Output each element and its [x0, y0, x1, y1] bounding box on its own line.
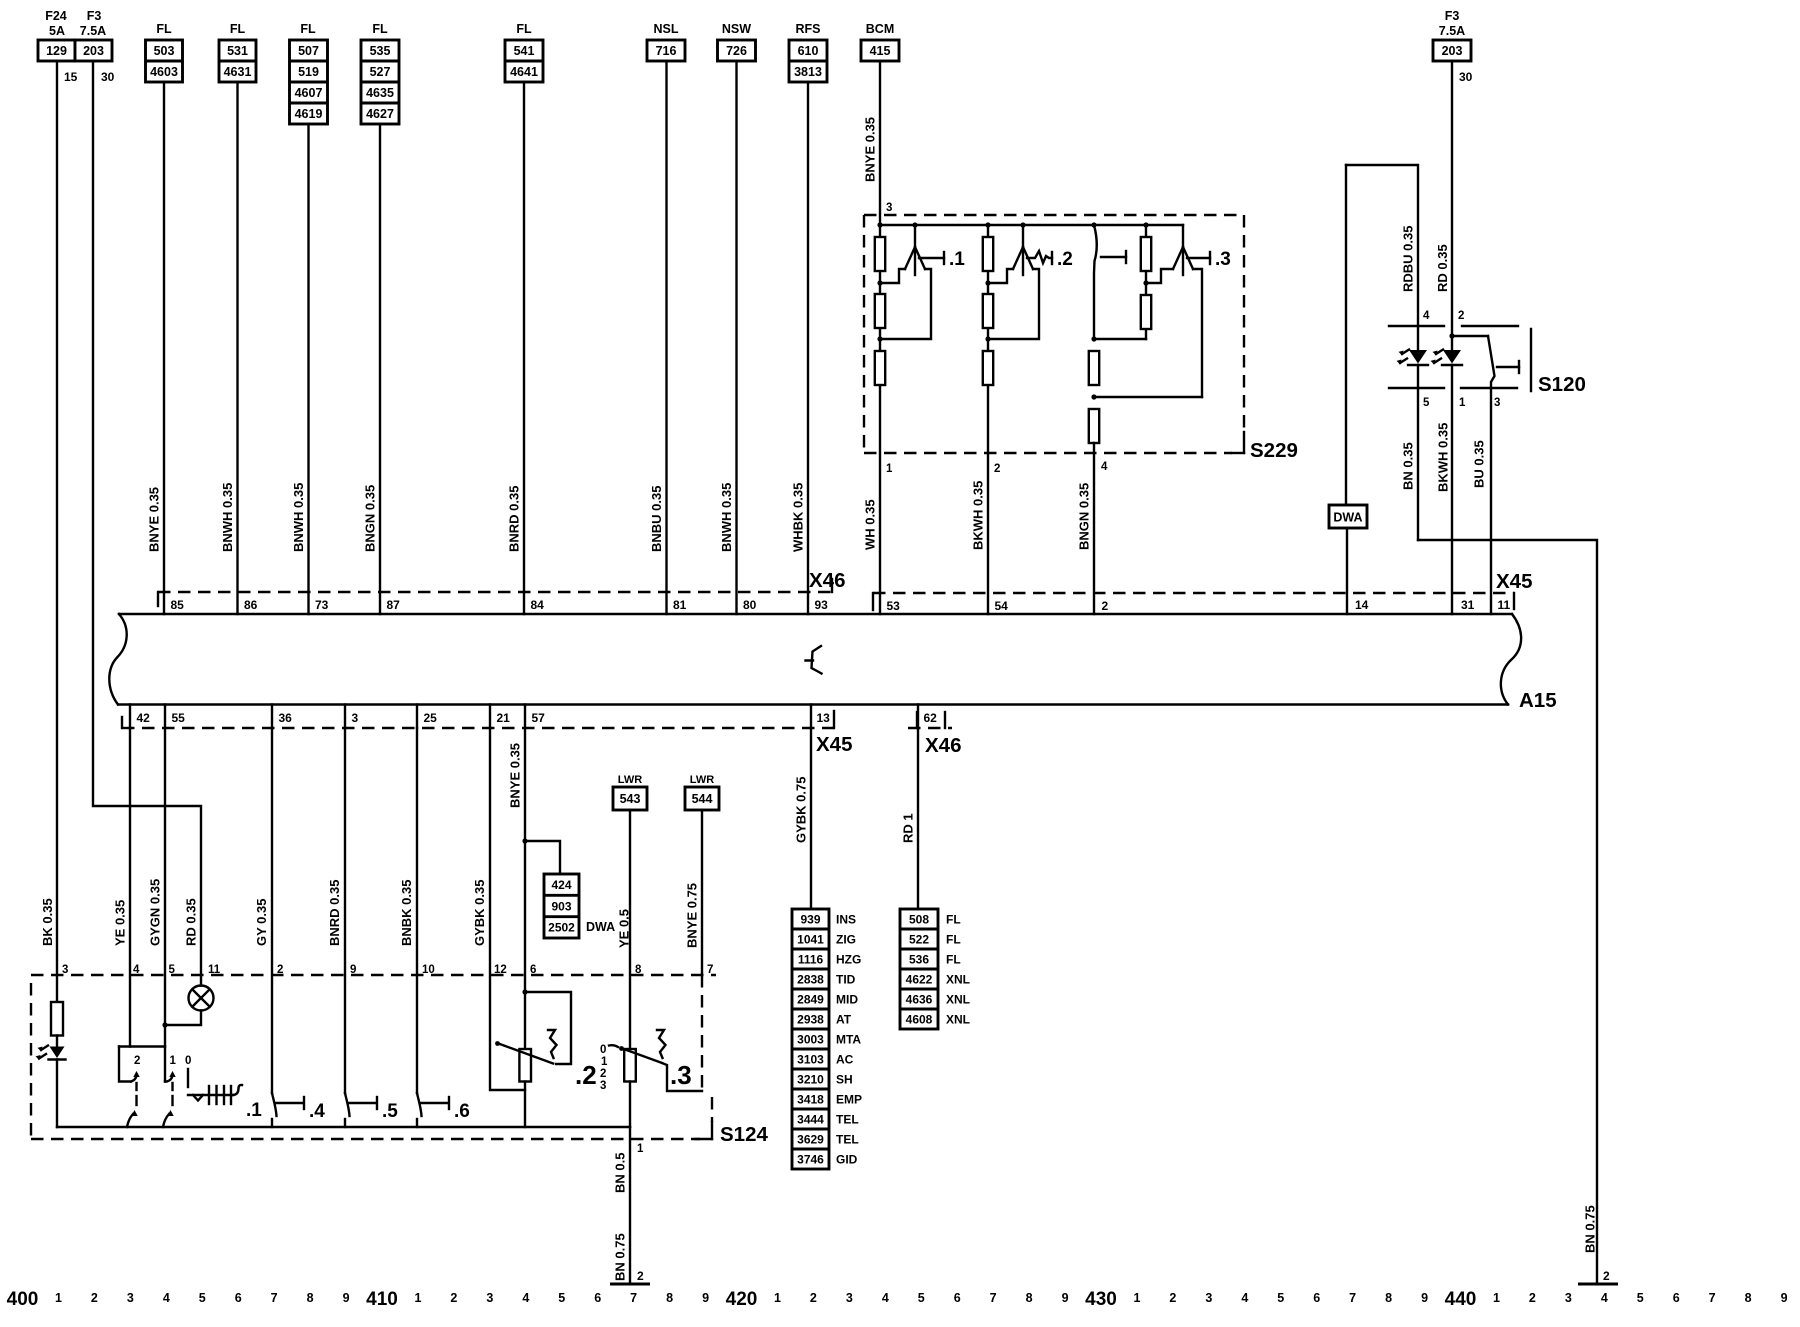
svg-text:GID: GID: [836, 1152, 858, 1166]
terminal FL 535/527/4635/4627: [361, 22, 399, 124]
svg-text:3: 3: [352, 711, 359, 725]
svg-text:XNL: XNL: [946, 992, 970, 1006]
svg-text:9: 9: [1781, 1291, 1788, 1305]
svg-text:726: 726: [726, 44, 747, 58]
svg-text:.2: .2: [575, 1060, 597, 1090]
svg-text:13: 13: [817, 711, 831, 725]
svg-text:3103: 3103: [797, 1052, 824, 1066]
svg-text:21: 21: [497, 711, 511, 725]
svg-text:3: 3: [127, 1291, 134, 1305]
svg-text:A15: A15: [1519, 689, 1557, 712]
S124 internal common line: [57, 1126, 630, 1128]
svg-text:9: 9: [343, 1291, 350, 1305]
svg-text:8: 8: [666, 1291, 673, 1305]
wire WHBK 0.35 (610 to X46:93): [791, 82, 829, 614]
svg-text:7: 7: [1349, 1291, 1356, 1305]
svg-text:3003: 3003: [797, 1032, 824, 1046]
svg-text:716: 716: [656, 44, 677, 58]
contact symbol S229.3: [1146, 225, 1231, 397]
svg-text:4: 4: [1601, 1291, 1608, 1305]
svg-text:3: 3: [846, 1291, 853, 1305]
svg-text:.6: .6: [454, 1101, 470, 1122]
svg-text:87: 87: [387, 598, 401, 612]
svg-text:EMP: EMP: [836, 1092, 862, 1106]
svg-text:YE 0.5: YE 0.5: [617, 909, 632, 948]
svg-text:541: 541: [514, 44, 535, 58]
svg-text:.3: .3: [1215, 249, 1231, 270]
svg-text:203: 203: [1442, 44, 1463, 58]
svg-text:1116: 1116: [798, 952, 824, 966]
wire RD 1 (X46:62 to connector table 508): [901, 728, 919, 909]
svg-text:2502: 2502: [548, 921, 575, 935]
svg-text:1041: 1041: [797, 932, 824, 946]
svg-text:522: 522: [909, 932, 929, 946]
svg-text:7: 7: [990, 1291, 997, 1305]
svg-text:YE 0.35: YE 0.35: [113, 900, 128, 946]
svg-text:53: 53: [887, 599, 901, 613]
svg-text:2: 2: [994, 463, 1000, 475]
svg-text:4627: 4627: [366, 107, 394, 121]
svg-text:14: 14: [1355, 598, 1369, 612]
svg-text:9: 9: [702, 1291, 709, 1305]
terminal FL 507/519/4607/4619: [290, 22, 328, 124]
svg-text:FL: FL: [946, 932, 961, 946]
svg-text:1: 1: [886, 463, 893, 475]
fuse F24 5A (terminal 129): [38, 9, 78, 84]
svg-text:7.5A: 7.5A: [80, 24, 106, 38]
switch S124.6: [417, 1093, 470, 1127]
svg-text:MID: MID: [836, 992, 858, 1006]
bus pin stubs below A15: [130, 705, 918, 729]
S229 dashed enclosure: [864, 215, 1298, 462]
svg-text:1: 1: [1133, 1291, 1140, 1305]
svg-text:2: 2: [1102, 599, 1109, 613]
svg-text:536: 536: [909, 952, 929, 966]
svg-text:X46: X46: [809, 569, 845, 592]
S229 internal supply bus: [877, 222, 1183, 227]
connector X46 dashed row (pins 85-93): [158, 569, 845, 606]
switch branch S229.3 left column: [1089, 225, 1202, 614]
LED in S124 with arrows: [36, 1036, 66, 1128]
svg-text:RFS: RFS: [796, 22, 821, 36]
svg-text:BNBK 0.35: BNBK 0.35: [399, 880, 414, 946]
wire RDBU 0.35 (S120 pin 4 branch): [1346, 165, 1430, 350]
svg-text:8: 8: [1385, 1291, 1392, 1305]
svg-text:X45: X45: [816, 733, 852, 756]
svg-text:535: 535: [370, 44, 391, 58]
svg-text:INS: INS: [836, 912, 856, 926]
svg-text:84: 84: [531, 598, 545, 612]
svg-text:NSL: NSL: [654, 22, 679, 36]
svg-text:86: 86: [244, 598, 258, 612]
svg-text:400: 400: [7, 1289, 39, 1310]
svg-text:BNRD 0.35: BNRD 0.35: [327, 880, 342, 946]
LWR potentiometer S124.2: [495, 989, 597, 1127]
wire BKWH 0.35 (S120 pin 1 to X45:31): [1436, 423, 1475, 612]
svg-text:BNYE 0.75: BNYE 0.75: [685, 883, 700, 948]
svg-text:2: 2: [91, 1291, 98, 1305]
connector X45 dashed row bottom (pins 42-13): [122, 711, 852, 756]
svg-text:610: 610: [798, 44, 819, 58]
svg-text:4: 4: [1423, 310, 1430, 322]
lamp symbol in S124 (instrument illumination): [162, 986, 213, 1028]
svg-text:415: 415: [870, 44, 891, 58]
terminal FL 531/4631: [219, 22, 256, 82]
wire BN 0.35 (S120 pin 5 to ground line): [1401, 442, 1416, 490]
svg-text:F3: F3: [87, 9, 102, 23]
svg-text:4608: 4608: [906, 1012, 933, 1026]
svg-text:3746: 3746: [797, 1152, 824, 1166]
svg-text:4622: 4622: [906, 972, 933, 986]
terminal BCM 415: [861, 22, 899, 61]
svg-text:.1: .1: [246, 1100, 262, 1121]
svg-text:5: 5: [199, 1291, 206, 1305]
wire GYBK 0.75 (X45:13 to connector table 939): [794, 728, 812, 909]
wire BK 0.35 from fuse 129 to S124 pin 3: [40, 61, 68, 1002]
wire GYGN 0.35 (X45:55 to S124 pin 5): [148, 728, 176, 1047]
svg-text:8: 8: [307, 1291, 314, 1305]
svg-text:DWA: DWA: [1333, 511, 1362, 525]
svg-text:RD 0.35: RD 0.35: [1435, 244, 1450, 292]
wire BNRD 0.35 (X45:3 to S124 pin 9): [327, 728, 356, 1093]
svg-text:RD 1: RD 1: [901, 813, 916, 843]
connector X46 bottom bracket (pin 62): [908, 712, 961, 757]
svg-text:3: 3: [1205, 1291, 1212, 1305]
svg-text:RDBU 0.35: RDBU 0.35: [1401, 226, 1416, 292]
svg-text:.2: .2: [1057, 249, 1073, 270]
wire BU 0.35 (S120 pin 3 to X45:11): [1472, 440, 1511, 612]
svg-text:1: 1: [1459, 397, 1466, 409]
svg-text:6: 6: [594, 1291, 601, 1305]
switch S124.5: [345, 1093, 398, 1127]
svg-text:15: 15: [64, 70, 78, 84]
svg-text:1: 1: [637, 1143, 644, 1155]
svg-text:3: 3: [600, 1080, 606, 1092]
svg-text:129: 129: [46, 44, 67, 58]
svg-text:508: 508: [909, 912, 929, 926]
svg-text:3: 3: [886, 202, 892, 214]
svg-text:0: 0: [185, 1055, 191, 1067]
svg-text:GYBK 0.35: GYBK 0.35: [472, 880, 487, 946]
svg-text:519: 519: [298, 65, 319, 79]
svg-text:2: 2: [1529, 1291, 1536, 1305]
svg-text:BCM: BCM: [866, 22, 894, 36]
svg-text:6: 6: [954, 1291, 961, 1305]
heater element S229.2 resistors: [983, 225, 993, 614]
svg-text:2: 2: [810, 1291, 817, 1305]
terminal RFS 610/3813: [789, 22, 827, 82]
svg-text:4: 4: [1241, 1291, 1248, 1305]
svg-text:LWR: LWR: [690, 774, 714, 786]
svg-text:WH 0.35: WH 0.35: [863, 499, 878, 550]
coordinate ruler 400-449: [7, 1289, 1788, 1310]
svg-text:2: 2: [637, 1269, 644, 1283]
svg-text:BNYE 0.35: BNYE 0.35: [147, 487, 162, 552]
svg-text:FL: FL: [230, 22, 246, 36]
svg-text:SH: SH: [836, 1072, 853, 1086]
svg-text:BNYE 0.35: BNYE 0.35: [863, 117, 878, 182]
wire BNYE 0.75 (544 to S124 pin 7): [685, 810, 714, 976]
svg-text:527: 527: [370, 65, 391, 79]
svg-text:939: 939: [800, 912, 820, 926]
svg-text:MTA: MTA: [836, 1032, 861, 1046]
svg-text:5A: 5A: [49, 24, 65, 38]
svg-text:9: 9: [1421, 1291, 1428, 1305]
svg-text:FL: FL: [516, 22, 532, 36]
svg-text:1: 1: [414, 1291, 421, 1305]
svg-text:FL: FL: [300, 22, 316, 36]
svg-text:55: 55: [172, 711, 186, 725]
svg-text:FL: FL: [156, 22, 172, 36]
svg-text:3: 3: [1494, 397, 1500, 409]
svg-text:3: 3: [1565, 1291, 1572, 1305]
svg-text:BNWH 0.35: BNWH 0.35: [291, 483, 306, 552]
svg-text:8: 8: [1026, 1291, 1033, 1305]
svg-text:NSW: NSW: [722, 22, 751, 36]
svg-text:25: 25: [424, 711, 438, 725]
svg-text:7: 7: [271, 1291, 278, 1305]
svg-text:5: 5: [1637, 1291, 1644, 1305]
svg-text:4: 4: [163, 1291, 170, 1305]
terminal FL 541/4641: [505, 22, 543, 82]
svg-text:XNL: XNL: [946, 1012, 970, 1026]
svg-text:2: 2: [1603, 1269, 1610, 1283]
svg-text:31: 31: [1461, 598, 1475, 612]
svg-text:BN 0.75: BN 0.75: [613, 1233, 628, 1281]
svg-text:2: 2: [134, 1055, 140, 1067]
svg-text:1: 1: [601, 1056, 608, 1068]
svg-text:80: 80: [743, 598, 757, 612]
svg-text:203: 203: [83, 44, 104, 58]
svg-text:430: 430: [1085, 1289, 1117, 1310]
svg-text:S120: S120: [1538, 373, 1586, 396]
svg-text:4: 4: [522, 1291, 529, 1305]
bus interruption squiggle: [806, 646, 822, 674]
svg-text:.3: .3: [670, 1060, 692, 1090]
svg-text:424: 424: [551, 878, 571, 892]
contact symbol S229.1: [880, 225, 965, 339]
contact symbol S229.2: [988, 225, 1073, 339]
svg-text:440: 440: [1445, 1289, 1477, 1310]
svg-text:2: 2: [1458, 310, 1464, 322]
LWR potentiometer S124.3: [600, 1030, 702, 1127]
svg-text:3444: 3444: [797, 1112, 824, 1126]
light switch S124.1 moving contact a: [127, 1055, 140, 1127]
wire BNYE 0.35 (503 to X46:85): [147, 82, 185, 614]
wire BNBU 0.35 (716 to X46:81): [649, 62, 687, 614]
svg-text:BNGN 0.35: BNGN 0.35: [1077, 483, 1092, 550]
svg-text:.1: .1: [949, 249, 965, 270]
svg-text:F24: F24: [45, 9, 67, 23]
svg-text:9: 9: [1062, 1291, 1069, 1305]
svg-text:RD 0.35: RD 0.35: [184, 898, 199, 946]
fuse F3 7.5A right (terminal 203): [1433, 9, 1473, 84]
terminal LWR 544: [685, 774, 719, 810]
svg-text:BNRD 0.35: BNRD 0.35: [507, 486, 522, 552]
svg-text:BN 0.5: BN 0.5: [613, 1153, 628, 1193]
svg-text:TID: TID: [836, 972, 856, 986]
svg-text:420: 420: [726, 1289, 758, 1310]
svg-text:TEL: TEL: [836, 1112, 859, 1126]
S124 dashed enclosure: [31, 975, 768, 1146]
svg-text:54: 54: [995, 599, 1009, 613]
ground wire BN 0.5 / BN 0.75 from S124 pin 1 to terminal 2: [610, 1127, 650, 1284]
svg-text:81: 81: [673, 598, 687, 612]
wire BNYE 0.35 (BCM 415 to S229 pin 3): [863, 62, 893, 225]
svg-text:2: 2: [450, 1291, 457, 1305]
light switch S124.1 moving contact b: [163, 1047, 191, 1128]
svg-text:DWA: DWA: [586, 920, 615, 934]
svg-text:1: 1: [170, 1055, 177, 1067]
svg-text:5: 5: [1423, 397, 1430, 409]
svg-text:4: 4: [882, 1291, 889, 1305]
svg-text:AC: AC: [836, 1052, 854, 1066]
svg-text:62: 62: [924, 711, 938, 725]
LED 1 in S120 (pin 4-5): [1397, 350, 1429, 541]
S120 bracket and label: [1531, 329, 1586, 396]
svg-text:TEL: TEL: [836, 1132, 859, 1146]
svg-text:X45: X45: [1496, 570, 1532, 593]
rheostat element of S124.1: [188, 1069, 262, 1121]
wire BNGN 0.35 (S229 pin 4 to X45:2): [1077, 461, 1109, 613]
svg-text:X46: X46: [925, 734, 961, 757]
wire YE 0.5 (543 to S124 pin 8): [617, 810, 643, 1049]
terminal LWR 543: [613, 774, 647, 810]
svg-text:3: 3: [486, 1291, 493, 1305]
wire YE 0.35 (X45:42 to S124 pin 4): [113, 728, 141, 1047]
pin numbers below A15: [137, 711, 938, 725]
heater element S229.1 resistors: [875, 225, 885, 614]
svg-text:543: 543: [620, 792, 641, 806]
svg-text:8: 8: [1745, 1291, 1752, 1305]
terminal NSW 726: [718, 22, 756, 61]
illumination resistor in S124 (pin 3 branch): [51, 1002, 63, 1036]
svg-text:6: 6: [1673, 1291, 1680, 1305]
svg-text:FL: FL: [946, 952, 961, 966]
svg-text:GY 0.35: GY 0.35: [254, 899, 269, 946]
svg-text:36: 36: [279, 711, 293, 725]
svg-text:XNL: XNL: [946, 972, 970, 986]
control unit A15 bus outline: [109, 614, 1556, 712]
svg-text:30: 30: [101, 70, 115, 84]
svg-text:4641: 4641: [510, 65, 538, 79]
svg-text:2838: 2838: [797, 972, 824, 986]
svg-text:544: 544: [692, 792, 713, 806]
svg-text:4636: 4636: [906, 992, 933, 1006]
svg-text:7: 7: [1709, 1291, 1716, 1305]
svg-text:57: 57: [532, 711, 546, 725]
DWA control unit box: [1329, 165, 1369, 614]
svg-text:2849: 2849: [797, 992, 824, 1006]
svg-text:AT: AT: [836, 1012, 852, 1026]
wire BNYE 0.35 (X45:57 to S124 pin 6): [508, 728, 537, 1049]
svg-text:93: 93: [815, 598, 829, 612]
svg-text:6: 6: [1313, 1291, 1320, 1305]
connector list table 508 FL/XNL: [900, 909, 970, 1029]
svg-text:2938: 2938: [797, 1012, 824, 1026]
svg-text:.5: .5: [382, 1101, 398, 1122]
svg-text:BN 0.75: BN 0.75: [1583, 1205, 1598, 1253]
svg-text:BNBU 0.35: BNBU 0.35: [649, 486, 664, 552]
svg-text:F3: F3: [1445, 9, 1460, 23]
svg-text:0: 0: [600, 1044, 606, 1056]
svg-text:BNWH 0.35: BNWH 0.35: [220, 483, 235, 552]
svg-text:LWR: LWR: [618, 774, 642, 786]
svg-text:3629: 3629: [797, 1132, 824, 1146]
wire BNBK 0.35 (X45:25 to S124 pin 10): [399, 728, 435, 1093]
LED 2 in S120 (pin 2-1): [1431, 333, 1463, 614]
svg-text:BNGN 0.35: BNGN 0.35: [363, 485, 378, 552]
wire GYBK 0.35 (X45:21 to S124 pin 12): [472, 728, 525, 1090]
svg-text:7.5A: 7.5A: [1439, 24, 1465, 38]
wire BNGN 0.35 (535 to X46:87): [363, 124, 401, 614]
branch wire to DWA diode box 424: [525, 841, 560, 874]
svg-text:5: 5: [558, 1291, 565, 1305]
svg-text:BKWH 0.35: BKWH 0.35: [1436, 423, 1451, 492]
svg-text:4607: 4607: [295, 86, 323, 100]
svg-text:HZG: HZG: [836, 952, 861, 966]
wire BNRD 0.35 (541 to X46:84): [507, 82, 545, 614]
svg-text:3813: 3813: [794, 65, 822, 79]
svg-text:GYBK 0.75: GYBK 0.75: [794, 777, 809, 843]
svg-text:FL: FL: [372, 22, 388, 36]
svg-text:BK 0.35: BK 0.35: [40, 898, 55, 946]
svg-text:4635: 4635: [366, 86, 394, 100]
dashed wire segment S124 pin 7: [701, 975, 703, 1091]
svg-text:1: 1: [774, 1291, 781, 1305]
connector list table 939 INS..GID: [792, 909, 862, 1169]
svg-text:4: 4: [1101, 461, 1108, 473]
svg-text:2: 2: [600, 1068, 606, 1080]
svg-text:503: 503: [154, 44, 175, 58]
fuse F3 7.5A (terminal 203): [75, 9, 115, 84]
svg-text:3210: 3210: [797, 1072, 824, 1086]
light switch S124.1 jog and loop: [119, 1047, 165, 1082]
svg-text:BNYE 0.35: BNYE 0.35: [508, 743, 523, 808]
svg-text:GYGN 0.35: GYGN 0.35: [148, 879, 163, 946]
svg-text:4631: 4631: [224, 65, 252, 79]
svg-text:ZIG: ZIG: [836, 932, 856, 946]
svg-text:1: 1: [55, 1291, 62, 1305]
svg-text:85: 85: [171, 598, 185, 612]
svg-text:S124: S124: [720, 1123, 768, 1146]
svg-text:5: 5: [918, 1291, 925, 1305]
connector X45 dashed row top right (pins 53-11): [873, 570, 1532, 610]
svg-text:7: 7: [630, 1291, 637, 1305]
svg-text:WHBK 0.35: WHBK 0.35: [791, 483, 806, 552]
svg-text:BN 0.35: BN 0.35: [1401, 442, 1416, 490]
switch contact in S120 (pin 2-3): [1452, 336, 1519, 614]
svg-text:6: 6: [235, 1291, 242, 1305]
svg-text:4603: 4603: [150, 65, 178, 79]
heater element S229.3 resistors right column: [1141, 225, 1151, 339]
terminal FL 503/4603: [146, 22, 183, 82]
svg-text:42: 42: [137, 711, 151, 725]
svg-text:FL: FL: [946, 912, 961, 926]
svg-text:BNWH 0.35: BNWH 0.35: [719, 483, 734, 552]
svg-text:73: 73: [315, 598, 329, 612]
svg-text:903: 903: [551, 899, 571, 913]
diode box 424/903/2502 with DWA label: [544, 874, 615, 938]
wire GY 0.35 (X45:36 to S124 pin 2): [254, 728, 283, 1093]
svg-text:507: 507: [298, 44, 319, 58]
svg-text:1: 1: [1493, 1291, 1500, 1305]
wire BNWH 0.35 (507 to X46:73): [291, 124, 329, 614]
S120 connector rails: [1389, 326, 1518, 409]
wire from fuse 203 terminal 30 to lamp S124.5 pin 11: [93, 61, 221, 986]
ground wire BN 0.75 right with terminal 2: [1418, 540, 1618, 1284]
svg-text:30: 30: [1459, 70, 1473, 84]
